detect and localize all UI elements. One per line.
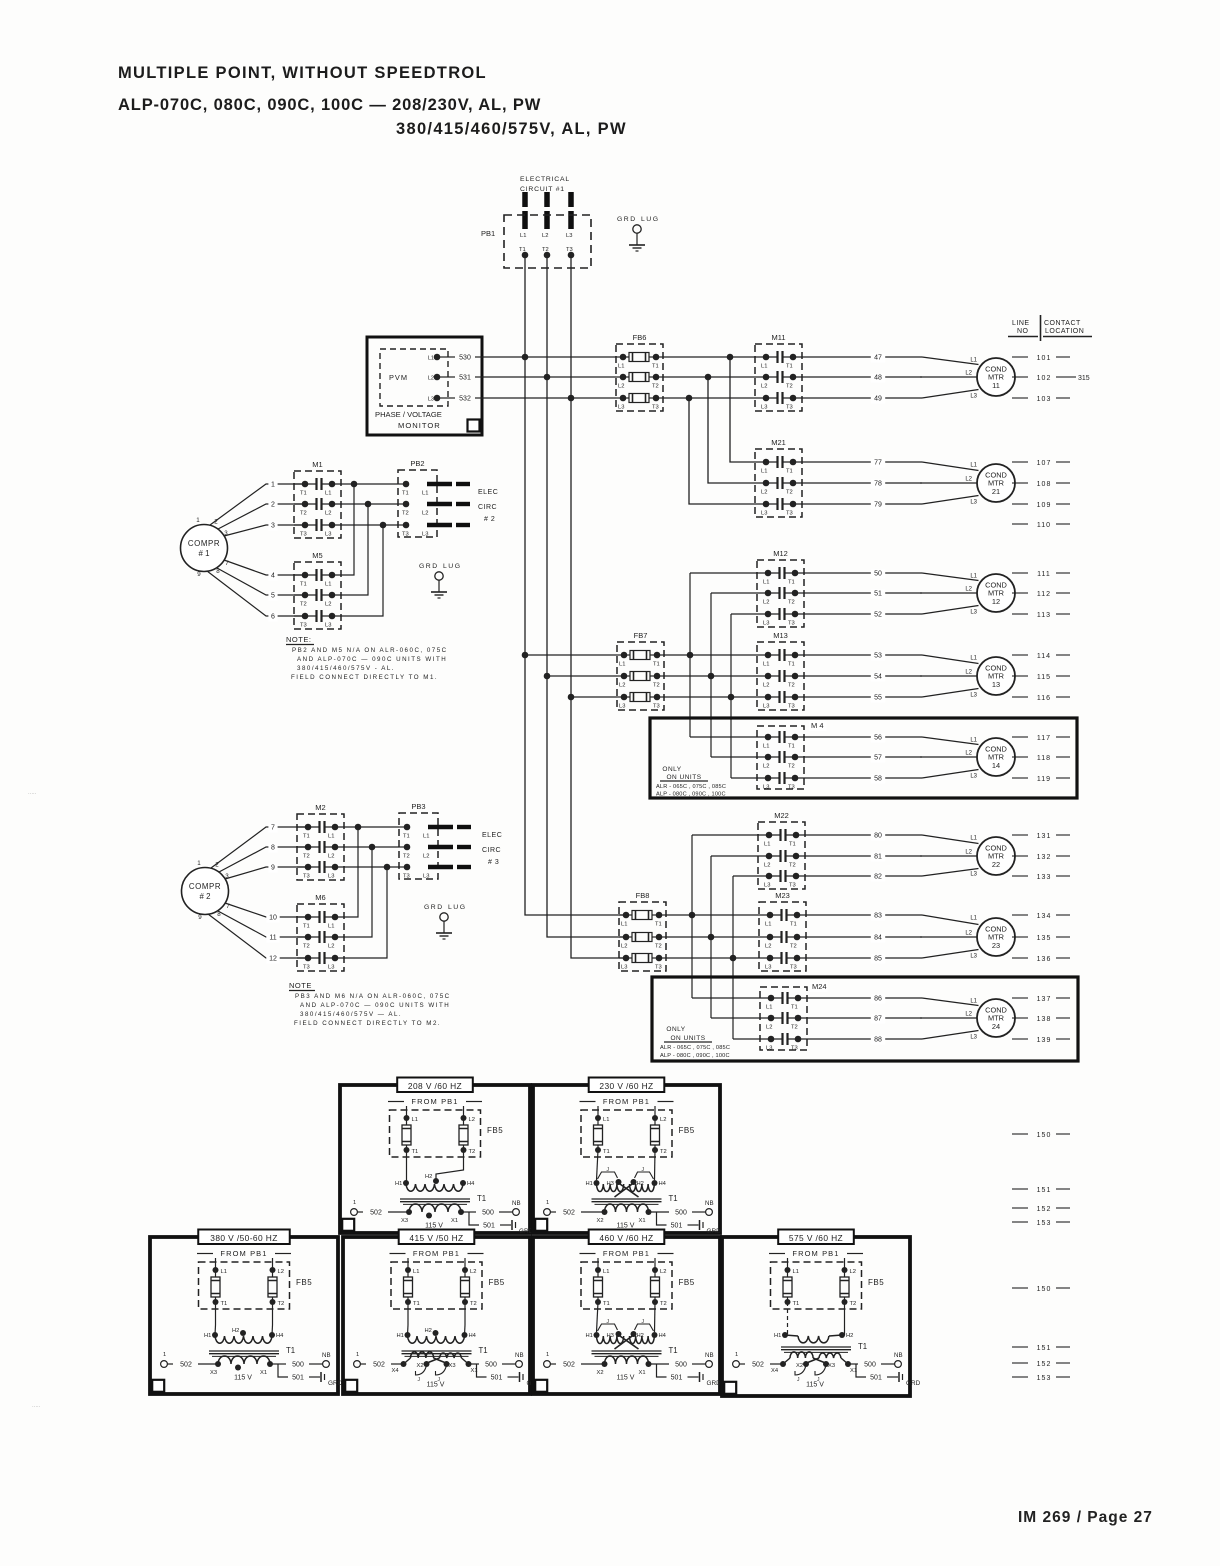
svg-text:L1: L1: [603, 1269, 609, 1275]
svg-text:L2: L2: [763, 764, 769, 770]
svg-text:230 V /60 HZ: 230 V /60 HZ: [599, 1081, 653, 1091]
contactor M24: [760, 987, 807, 1052]
svg-text:L1: L1: [763, 580, 769, 586]
svg-text:GRD: GRD: [419, 563, 439, 570]
svg-text:X4: X4: [771, 1368, 779, 1374]
line number 150: [1012, 1132, 1070, 1139]
svg-text:24: 24: [992, 1022, 1000, 1031]
svg-text:T2: T2: [470, 1301, 477, 1307]
wires from PB1 to FB5: [407, 1106, 464, 1118]
wire compressor lead 11: [218, 911, 305, 943]
svg-text:L2: L2: [423, 854, 429, 860]
svg-text:FB5: FB5: [296, 1278, 312, 1287]
line number 133: [1012, 874, 1070, 881]
svg-text:T2: T2: [660, 1149, 667, 1155]
svg-text:X1: X1: [639, 1218, 646, 1224]
svg-text:82: 82: [874, 874, 882, 881]
line number 103: [1012, 396, 1070, 403]
svg-text:85: 85: [874, 956, 882, 963]
svg-text:X2: X2: [597, 1370, 604, 1376]
wire compressor lead 5: [217, 568, 305, 601]
svg-text:M13: M13: [773, 631, 788, 640]
svg-text:T1: T1: [413, 1301, 420, 1307]
transformer T1 core: [592, 1199, 662, 1204]
svg-text:T3: T3: [652, 405, 659, 411]
svg-text:T3: T3: [789, 883, 796, 889]
motor COND MTR 24: [977, 999, 1015, 1037]
note 1: [286, 635, 448, 681]
label FROM PB1: [580, 1249, 674, 1258]
svg-text:L2: L2: [328, 944, 334, 950]
fuse block FB6: [616, 344, 663, 411]
option box M14: [650, 718, 1077, 798]
wire 47: [802, 354, 922, 363]
junction: [544, 673, 551, 680]
branch M6 L2: [344, 844, 375, 937]
svg-text:X1: X1: [260, 1370, 267, 1376]
svg-text:500: 500: [864, 1362, 876, 1369]
svg-text:86: 86: [874, 996, 882, 1003]
svg-text:X3: X3: [449, 1363, 456, 1369]
label M 4: [809, 722, 827, 732]
svg-text:L3: L3: [763, 621, 769, 627]
svg-text:L3: L3: [970, 693, 977, 699]
svg-text:T1: T1: [402, 491, 409, 497]
svg-text:T3: T3: [655, 965, 662, 971]
line number 151: [1012, 1187, 1070, 1194]
contactor M1: [294, 471, 341, 538]
svg-text:1: 1: [197, 860, 201, 867]
svg-text:T2: T2: [789, 863, 796, 869]
svg-text:NB: NB: [705, 1200, 714, 1207]
svg-text:2: 2: [271, 502, 275, 509]
svg-text:CIRC: CIRC: [482, 847, 501, 854]
incoming line L3 stub: [568, 192, 575, 258]
wires from PB1 to FB5: [598, 1258, 655, 1270]
terminal block PB2: [398, 470, 437, 538]
svg-text:L1: L1: [328, 834, 334, 840]
wire compressor lead 12: [208, 914, 305, 964]
svg-text:H1: H1: [586, 1181, 593, 1187]
fuse block FB5: [581, 1110, 672, 1157]
svg-text:L3: L3: [325, 532, 331, 538]
svg-text:H1: H1: [774, 1333, 781, 1339]
transformer T1 secondary: [401, 1204, 464, 1224]
svg-text:L1: L1: [793, 1269, 799, 1275]
wire FB6 to M11 at y=398: [663, 397, 755, 399]
svg-text:T1: T1: [789, 842, 796, 848]
svg-text:ALR - 065C , 075C , 085C: ALR - 065C , 075C , 085C: [656, 784, 726, 790]
svg-text:T3: T3: [786, 511, 793, 517]
svg-text:L1: L1: [764, 842, 770, 848]
svg-text:L3: L3: [325, 623, 331, 629]
svg-text:8: 8: [216, 568, 220, 575]
svg-text:8: 8: [217, 911, 221, 918]
svg-text:H4: H4: [276, 1333, 284, 1339]
svg-text:77: 77: [874, 460, 882, 467]
wires from PB1 to FB5: [216, 1258, 273, 1270]
svg-text:ALR - 065C , 075C , 085C: ALR - 065C , 075C , 085C: [660, 1045, 730, 1051]
wire M2 row2 to PB3: [344, 846, 399, 848]
junction: [568, 395, 575, 402]
svg-text:L2: L2: [470, 1269, 476, 1275]
svg-text:501: 501: [671, 1223, 683, 1230]
svg-text:FB8: FB8: [636, 891, 650, 900]
svg-text:152: 152: [1037, 1206, 1052, 1213]
wire feeder L1 vertical: [525, 255, 626, 915]
svg-text:M21: M21: [771, 438, 786, 447]
svg-text:L1: L1: [221, 1269, 227, 1275]
svg-text:135: 135: [1037, 935, 1052, 942]
svg-text:501: 501: [491, 1375, 503, 1382]
svg-text:87: 87: [874, 1016, 882, 1023]
svg-text:·····: ·····: [32, 1404, 41, 1410]
wire compressor lead 2: [218, 501, 305, 529]
svg-text:2: 2: [215, 862, 219, 869]
svg-text:T2: T2: [300, 602, 307, 608]
svg-text:80: 80: [874, 833, 882, 840]
wire FB6 to M11 at y=377: [663, 376, 755, 378]
line number 150: [1012, 1286, 1070, 1293]
transformer T1 secondary: [210, 1356, 273, 1376]
svg-text:T1: T1: [655, 922, 662, 928]
svg-text:115: 115: [1037, 674, 1051, 681]
transformer T1 secondary: [597, 1204, 652, 1224]
fuse block FB5: [771, 1262, 862, 1309]
svg-text:L1: L1: [765, 922, 771, 928]
svg-text:110: 110: [1037, 522, 1051, 529]
transformer option box 460 V /60 HZ: [533, 1237, 720, 1394]
svg-text:84: 84: [874, 935, 882, 942]
contactor M11: [755, 344, 802, 411]
svg-text:108: 108: [1037, 481, 1052, 488]
svg-text:L1: L1: [618, 364, 624, 370]
label M24: [810, 983, 828, 993]
svg-text:M23: M23: [775, 891, 790, 900]
svg-text:NB: NB: [515, 1352, 524, 1359]
svg-text:L2: L2: [766, 1025, 772, 1031]
svg-text:L2: L2: [469, 1117, 475, 1123]
transformer option box 575 V /60 HZ: [722, 1237, 910, 1396]
svg-text:ONLY: ONLY: [666, 1026, 685, 1033]
svg-text:# 2: # 2: [200, 892, 211, 901]
svg-text:T2: T2: [653, 683, 660, 689]
only on units note 2: [660, 1026, 730, 1059]
svg-text:NB: NB: [705, 1352, 714, 1359]
branch wire to M21 L2: [705, 374, 755, 483]
phase voltage monitor box: [367, 337, 482, 435]
svg-text:FROM PB1: FROM PB1: [220, 1249, 267, 1258]
svg-text:115 V: 115 V: [806, 1382, 824, 1389]
svg-text:L3: L3: [621, 965, 627, 971]
svg-text:T3: T3: [300, 623, 307, 629]
svg-text:12: 12: [992, 597, 1000, 606]
svg-text:T2: T2: [790, 944, 797, 950]
contactor M12: [757, 560, 804, 627]
wire M1 row2 to PB2: [341, 503, 398, 505]
wire 77: [802, 459, 922, 468]
svg-text:L1: L1: [520, 233, 526, 239]
svg-text:1: 1: [353, 1200, 356, 1206]
svg-text:8: 8: [271, 845, 275, 852]
wire feeder L3 vertical: [571, 255, 626, 958]
wire 86: [807, 995, 922, 1004]
wire monitor to FB6 at y=377: [482, 376, 616, 378]
svg-text:23: 23: [992, 941, 1000, 950]
svg-text:L1: L1: [325, 491, 331, 497]
svg-text:GRD: GRD: [707, 1228, 722, 1235]
note 2: [289, 981, 451, 1027]
line number 112: [1012, 591, 1070, 598]
line number 111: [1012, 571, 1070, 578]
svg-text:ALP - 080C , 090C , 100C: ALP - 080C , 090C , 100C: [656, 792, 726, 798]
svg-text:502: 502: [370, 1210, 382, 1217]
svg-text:X2: X2: [417, 1363, 424, 1369]
svg-text:M22: M22: [774, 811, 789, 820]
svg-text:58: 58: [874, 776, 882, 783]
transformer T1 primary: [586, 1150, 667, 1197]
svg-text:501: 501: [870, 1375, 882, 1382]
svg-text:GRD: GRD: [906, 1380, 921, 1387]
svg-text:L1: L1: [619, 662, 625, 668]
svg-text:L1: L1: [763, 662, 769, 668]
wire 78: [802, 480, 922, 489]
svg-text:132: 132: [1037, 854, 1052, 861]
svg-text:380/415/460/575V — AL.: 380/415/460/575V — AL.: [300, 1011, 402, 1018]
transformer T1 core: [592, 1351, 662, 1356]
svg-text:1: 1: [196, 517, 200, 524]
svg-text:T2: T2: [652, 384, 659, 390]
svg-text:L1: L1: [325, 582, 331, 588]
wire compressor lead 6: [207, 571, 305, 622]
wire M1 row3 to PB2: [341, 524, 398, 526]
wires from PB1 to FB5: [788, 1258, 845, 1270]
svg-text:L3: L3: [970, 394, 977, 400]
svg-text:L2: L2: [761, 384, 767, 390]
transformer option box 230 V /60 HZ: [533, 1085, 720, 1233]
svg-text:12: 12: [269, 956, 277, 963]
svg-text:575 V /60 HZ: 575 V /60 HZ: [789, 1233, 843, 1243]
svg-text:T2: T2: [542, 247, 549, 253]
svg-text:T2: T2: [300, 511, 307, 517]
label FROM PB1: [197, 1249, 291, 1258]
svg-text:T3: T3: [403, 874, 410, 880]
corner notch: [345, 1380, 357, 1392]
svg-text:H2: H2: [637, 1333, 644, 1339]
svg-text:150: 150: [1037, 1132, 1052, 1139]
wire compressor lead 8: [219, 844, 305, 872]
svg-text:1: 1: [163, 1352, 166, 1358]
svg-text:47: 47: [874, 355, 882, 362]
svg-text:L2: L2: [278, 1269, 284, 1275]
svg-text:T3: T3: [788, 704, 795, 710]
svg-text:PB1: PB1: [481, 229, 495, 238]
svg-text:PHASE / VOLTAGE: PHASE / VOLTAGE: [375, 410, 442, 419]
svg-text:530: 530: [459, 355, 471, 362]
svg-text:L3: L3: [761, 405, 767, 411]
line number 136: [1012, 956, 1070, 963]
transformer T1 primary: [204, 1302, 284, 1343]
svg-text:L3: L3: [763, 704, 769, 710]
svg-text:FB7: FB7: [634, 631, 648, 640]
wire 55: [804, 694, 922, 703]
fuse block FB7: [617, 642, 664, 710]
svg-text:H4: H4: [467, 1181, 475, 1187]
wire feeders to FB7 row3: [571, 696, 617, 698]
svg-text:T1: T1: [858, 1342, 867, 1351]
svg-text:T1: T1: [303, 924, 310, 930]
svg-text:L2: L2: [325, 511, 331, 517]
svg-text:117: 117: [1037, 735, 1051, 742]
svg-text:501: 501: [292, 1375, 304, 1382]
corner notch: [535, 1380, 547, 1392]
svg-text:55: 55: [874, 695, 882, 702]
svg-text:1: 1: [735, 1352, 738, 1358]
junction: [522, 652, 529, 659]
svg-text:ELECTRICAL: ELECTRICAL: [520, 176, 570, 183]
svg-text:T3: T3: [303, 965, 310, 971]
svg-text:53: 53: [874, 653, 882, 660]
svg-text:T1: T1: [603, 1149, 610, 1155]
corner notch: [152, 1380, 164, 1392]
motor COND MTR 23 entry lines: [920, 915, 979, 960]
svg-text:150: 150: [1037, 1286, 1052, 1293]
wire 80: [805, 832, 922, 841]
svg-text:X2: X2: [597, 1218, 604, 1224]
svg-text:FB5: FB5: [679, 1278, 695, 1287]
svg-text:L1: L1: [970, 358, 977, 364]
line number 102: [1012, 375, 1090, 382]
svg-text:L2: L2: [542, 233, 548, 239]
wire 84: [806, 934, 922, 943]
branch wire to M21 L3: [686, 395, 755, 504]
svg-text:T2: T2: [403, 854, 410, 860]
motor COND MTR 13: [977, 657, 1015, 695]
svg-text:T2: T2: [788, 683, 795, 689]
wire feeders to FB7 row2: [547, 675, 617, 677]
svg-text:502: 502: [752, 1362, 764, 1369]
svg-text:103: 103: [1037, 396, 1052, 403]
terminal block PB1: [504, 215, 591, 268]
svg-text:9: 9: [198, 914, 202, 921]
secondary wiring 502 / 500 / 501: [544, 1352, 721, 1387]
branch wire to M22/M24 phase3: [730, 876, 760, 1039]
svg-text:L3: L3: [566, 233, 572, 239]
svg-text:T1: T1: [788, 744, 795, 750]
svg-text:133: 133: [1037, 874, 1052, 881]
svg-text:380 V /50-60 HZ: 380 V /50-60 HZ: [210, 1233, 277, 1243]
svg-text:501: 501: [483, 1223, 495, 1230]
svg-text:T2: T2: [850, 1301, 857, 1307]
motor COND MTR 11 entry lines: [920, 357, 979, 400]
svg-text:T2: T2: [402, 511, 409, 517]
wire 79: [802, 501, 922, 510]
svg-text:# 2: # 2: [484, 516, 495, 523]
fuse block FB5: [390, 1110, 481, 1157]
svg-text:L1: L1: [603, 1117, 609, 1123]
svg-text:H1: H1: [397, 1333, 404, 1339]
line number 138: [1012, 1016, 1070, 1023]
transformer T1 secondary: [771, 1352, 857, 1383]
wire monitor to FB6 at y=357: [482, 356, 616, 358]
svg-text:14: 14: [992, 761, 1000, 770]
svg-text:81: 81: [874, 854, 882, 861]
svg-text:102: 102: [1037, 375, 1052, 382]
svg-text:L2: L2: [761, 490, 767, 496]
svg-text:CIRC: CIRC: [478, 504, 497, 511]
svg-text:# 1: # 1: [199, 549, 210, 558]
svg-text:L1: L1: [970, 836, 977, 842]
wires from PB1 to FB5: [408, 1258, 465, 1270]
svg-text:L2: L2: [850, 1269, 856, 1275]
line number 137: [1012, 996, 1070, 1003]
svg-text:L3: L3: [970, 1035, 977, 1041]
svg-text:L3: L3: [423, 874, 429, 880]
svg-text:X4: X4: [392, 1368, 400, 1374]
svg-text:L1: L1: [970, 916, 977, 922]
title plate 230 V /60 HZ: [589, 1078, 665, 1093]
wire monitor to FB6 at y=398: [482, 397, 616, 399]
wire 58: [804, 775, 922, 784]
branch M5 L2: [341, 501, 371, 595]
svg-text:H4: H4: [659, 1181, 667, 1187]
svg-text:AND ALP-070C — 090C UNITS W: AND ALP-070C — 090C UNITS WITH: [300, 1002, 450, 1009]
svg-text:L1: L1: [970, 738, 977, 744]
svg-text:ON UNITS: ON UNITS: [666, 774, 701, 781]
svg-text:L1: L1: [328, 924, 334, 930]
svg-text:T1: T1: [788, 662, 795, 668]
contactor M5: [294, 562, 341, 629]
svg-text:L1: L1: [412, 1117, 418, 1123]
svg-text:131: 131: [1037, 833, 1052, 840]
svg-text:L3: L3: [765, 965, 771, 971]
wire compressor lead 1: [210, 481, 305, 525]
svg-text:L1: L1: [970, 463, 977, 469]
svg-text:119: 119: [1037, 776, 1051, 783]
svg-text:3: 3: [271, 523, 275, 530]
svg-text:M1: M1: [312, 460, 322, 469]
junction: [522, 354, 529, 361]
transformer option box 380 V /50-60 HZ: [150, 1237, 338, 1394]
svg-text:7: 7: [225, 560, 229, 567]
svg-text:L1: L1: [761, 469, 767, 475]
svg-text:H2: H2: [425, 1328, 432, 1334]
svg-text:L1: L1: [428, 356, 434, 362]
contactor M22: [758, 822, 805, 889]
line number 110: [1012, 522, 1070, 529]
svg-text:L3: L3: [970, 872, 977, 878]
svg-text:T3: T3: [791, 1046, 798, 1052]
svg-text:L2: L2: [965, 587, 972, 593]
svg-text:501: 501: [671, 1375, 683, 1382]
svg-text:LUG: LUG: [443, 563, 461, 570]
secondary wiring 502 / 500 / 501: [161, 1352, 343, 1387]
svg-text:PB3: PB3: [411, 802, 425, 811]
svg-text:111: 111: [1037, 571, 1051, 578]
svg-text:L3: L3: [970, 500, 977, 506]
title plate 575 V /60 HZ: [778, 1230, 854, 1245]
transformer T1 core: [400, 1199, 470, 1204]
line number 107: [1012, 460, 1070, 467]
line number 117: [1012, 735, 1070, 742]
svg-text:L2: L2: [763, 683, 769, 689]
svg-text:L3: L3: [328, 965, 334, 971]
transformer T1 primary: [774, 1302, 853, 1343]
svg-text:GRD: GRD: [328, 1380, 343, 1387]
svg-text:115 V: 115 V: [425, 1223, 443, 1230]
svg-text:X1: X1: [451, 1218, 458, 1224]
wire compressor lead 3: [224, 522, 305, 536]
